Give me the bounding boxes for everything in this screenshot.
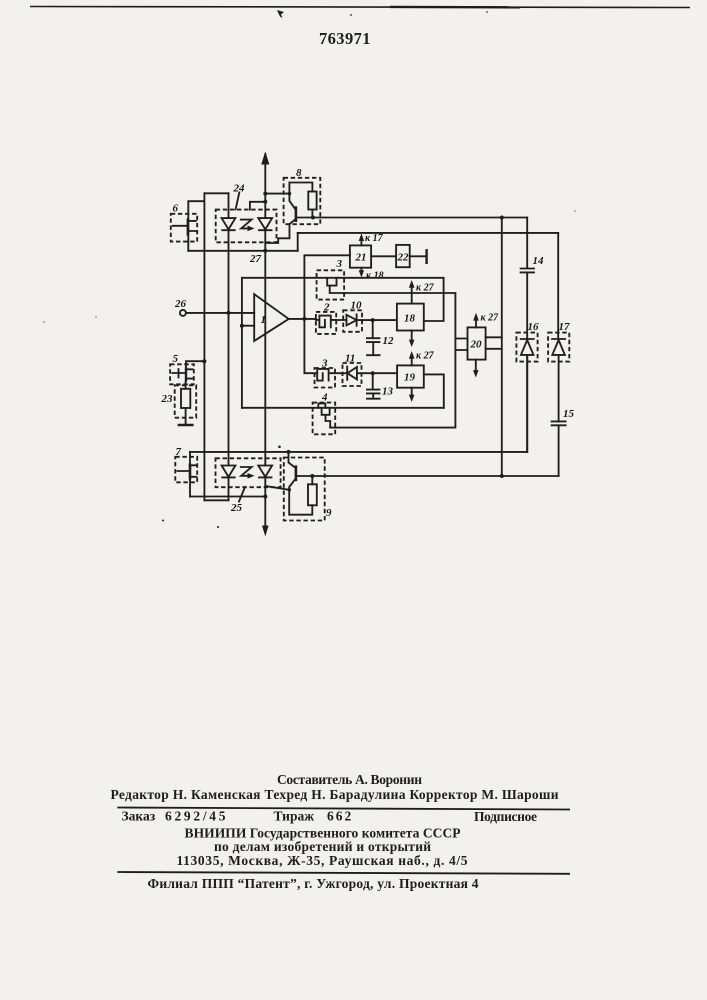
wire: y=293 long line to x=455.4 down to box4 exit <box>330 293 455 428</box>
ground bar under 23 <box>178 424 194 427</box>
svg-text:3: 3 <box>336 258 343 270</box>
svg-text:Тираж: Тираж <box>274 809 315 824</box>
svg-text:2: 2 <box>323 302 330 314</box>
svg-text:к 27: к 27 <box>416 283 435 294</box>
svg-text:16: 16 <box>528 321 540 333</box>
wire: LED chain vertical x=228.5 lower <box>228 477 230 500</box>
wire: long left vertical x=204.4 <box>203 193 205 500</box>
arrow down from box 20 <box>475 360 477 373</box>
svg-text:к 18: к 18 <box>366 271 384 282</box>
transistor V9 collector <box>289 452 296 468</box>
arrow k27 up from box 19 <box>411 355 413 365</box>
diode D17 <box>552 233 565 422</box>
svg-text:18: 18 <box>404 313 416 325</box>
wire: op-amp loop top y=277.8 to corner and into box 18 <box>242 278 444 321</box>
svg-text:13: 13 <box>382 386 394 398</box>
vertical x=501.8 <box>501 218 503 477</box>
wire: output dropper to lower branch <box>304 319 317 373</box>
svg-text:763971: 763971 <box>319 29 371 48</box>
svg-text:к 17: к 17 <box>365 233 384 244</box>
wire: bottom cap between verticals <box>204 499 228 501</box>
wire: top up-arrow stem at node x=265.3 <box>264 154 266 218</box>
wire: node 27 riser to long line <box>297 233 299 251</box>
transistor box 9 dashed <box>284 458 325 521</box>
transistor box 5 dashed <box>170 364 194 384</box>
box 19 <box>397 365 424 387</box>
diode 10 box dashed <box>343 310 362 332</box>
svg-text:6292/45: 6292/45 <box>165 809 228 824</box>
svg-text:10: 10 <box>351 300 363 312</box>
svg-text:26: 26 <box>174 298 187 310</box>
transistor box 6 dashed <box>171 214 197 242</box>
junction dot resistor8 bottom <box>311 216 315 220</box>
arrow down from box 18 <box>411 331 413 343</box>
svg-text:Редактор Н. Каменская Техред: Редактор Н. Каменская Техред Н. Барадули… <box>111 787 559 802</box>
svg-text:25: 25 <box>230 502 243 514</box>
wire box21-box22 <box>371 255 396 257</box>
wire: node-27 chain vertical x=265.3 middle <box>264 230 266 466</box>
wire: dot line y=193.6 to transistor 8 collector <box>265 193 289 195</box>
mosfet box 3 lower dashed <box>315 368 336 388</box>
op-amp U1 triangle <box>254 294 289 341</box>
transistor V9 base bar <box>295 465 298 481</box>
page top edge line <box>30 7 690 8</box>
transistor 6 symbol <box>187 218 190 235</box>
svg-text:3: 3 <box>321 358 328 370</box>
svg-text:по делам изобретений и открыти: по делам изобретений и открытий <box>214 839 431 854</box>
speck mark near top <box>277 10 284 18</box>
mosfet box 4 dashed <box>313 403 336 435</box>
diode D-left of U25 <box>222 466 236 478</box>
transistor V9 emitter loop <box>289 480 312 515</box>
box 18 <box>397 304 424 331</box>
rule 2 <box>117 872 570 874</box>
diode D-right of U25 <box>258 466 272 478</box>
resistor R23 <box>181 389 190 408</box>
svg-text:19: 19 <box>404 372 416 384</box>
input terminal 26 <box>180 310 186 316</box>
box 21 <box>350 245 371 267</box>
svg-text:12: 12 <box>383 335 395 347</box>
wire: top cap between verticals <box>204 192 228 194</box>
resistor R9 top lead <box>311 476 313 484</box>
optocoupler box U24 dashed <box>216 210 277 243</box>
diode 11 box dashed <box>343 363 362 386</box>
arrow down from box 19 <box>411 388 413 398</box>
wire: LED chain vertical x=228.5 middle <box>228 230 230 466</box>
capacitor C14 <box>521 218 534 340</box>
arrow k17 up from box 21 <box>360 237 362 245</box>
svg-text:Филиал ППП “Патент”, г. Ужгоро: Филиал ППП “Патент”, г. Ужгород, ул. Про… <box>148 876 479 891</box>
arrow k27 up from box 18 <box>411 284 413 304</box>
mosfet 2 symbol <box>316 316 336 328</box>
thyristor box 16 dashed <box>516 333 537 362</box>
transistor 5 symbol <box>185 367 187 381</box>
wire: long line y=233 to thyristor 17 <box>298 232 559 234</box>
wire: bottom arrow down <box>264 477 266 527</box>
wire: input line y=312.9 <box>186 312 254 314</box>
wire: LED chain vertical x=228.5 upper <box>228 193 230 218</box>
svg-text:662: 662 <box>327 809 353 824</box>
label 25 pointer <box>239 487 245 502</box>
wire: bottom outer left edge x=190 <box>189 452 191 497</box>
svg-text:к 27: к 27 <box>416 351 435 362</box>
box 20 left stubs <box>455 339 467 351</box>
resistor box 23 dashed <box>175 385 197 417</box>
zener Z mark of U24 <box>241 220 252 229</box>
transistor V8 base bar <box>295 206 298 222</box>
svg-text:Составитель А. Воронин: Составитель А. Воронин <box>277 772 422 787</box>
wire: thyristor16 drop to line A <box>526 355 528 452</box>
wire: top outer corner left edge x=188.3 <box>188 201 204 251</box>
diode to base diagonal <box>265 486 289 490</box>
arrow k18 down from box 21 <box>360 268 362 274</box>
arrowhead up <box>261 152 269 165</box>
svg-text:20: 20 <box>470 339 483 351</box>
box 22 <box>396 245 410 267</box>
box 20 <box>468 327 486 359</box>
thyristor box 17 dashed <box>548 333 569 362</box>
junction dot bottom edge <box>263 495 267 499</box>
mosfet 3u symbol <box>327 278 344 293</box>
wire: long line y=217.5 <box>297 217 527 219</box>
svg-text:15: 15 <box>563 408 575 420</box>
svg-text:23: 23 <box>161 393 174 405</box>
capacitor C13 <box>367 373 380 399</box>
transistor box 7 dashed <box>175 457 197 483</box>
svg-text:17: 17 <box>559 321 571 333</box>
capacitor C15 <box>552 421 566 476</box>
optocoupler box U25 dashed <box>216 458 281 487</box>
label 24 pointer <box>236 193 240 210</box>
wire: line A y=452 <box>190 451 527 453</box>
resistor R8 <box>308 192 316 210</box>
svg-text:1: 1 <box>261 314 267 326</box>
mosfet 3L symbol <box>317 369 334 381</box>
resistor R8 bottom lead <box>311 210 313 218</box>
junction dot <box>263 200 267 204</box>
svg-text:5: 5 <box>173 353 179 365</box>
svg-text:6: 6 <box>173 203 179 215</box>
terminal bar <box>425 249 427 264</box>
svg-text:9: 9 <box>326 507 332 519</box>
diode VD10 <box>336 314 397 325</box>
wire: op-amp loop bottom through box 4 to corner <box>242 407 444 409</box>
resistor R9 <box>308 484 317 505</box>
mosfet box 2 dashed <box>316 312 336 334</box>
diode D16 <box>521 339 534 452</box>
wire: box 19 right loop <box>424 374 444 407</box>
junction dot <box>263 192 267 196</box>
wire: op-amp loop left edge <box>241 278 243 408</box>
svg-text:7: 7 <box>176 446 182 458</box>
box 20 right stubs <box>486 337 502 349</box>
transistor V8 emitter <box>265 220 295 243</box>
svg-text:27: 27 <box>249 253 262 265</box>
rule 1 <box>117 808 570 810</box>
svg-text:к 27: к 27 <box>481 313 500 324</box>
svg-text:11: 11 <box>345 353 355 365</box>
svg-text:14: 14 <box>533 255 545 267</box>
wire: feedback input <box>242 325 254 327</box>
arrow k27 up from box 20 <box>475 317 477 328</box>
mosfet 4 symbol <box>318 403 330 427</box>
svg-text:Заказ: Заказ <box>122 809 156 824</box>
zener Z mark of U25 <box>241 467 252 476</box>
diode D-left of U24 <box>222 218 236 230</box>
diode D-right of U24 <box>258 218 272 230</box>
wire: output riser to box 21 <box>304 255 350 319</box>
wire: bottom edge y=496.5 <box>190 496 265 498</box>
wire box22-terminal <box>410 255 426 257</box>
junction dot at x=501.8 <box>500 216 504 220</box>
junction dot emitter corner <box>287 488 291 492</box>
paper specks <box>278 446 281 449</box>
node 27 junction dot <box>263 249 267 253</box>
wire: node 27 horizontal y=251 <box>188 250 297 252</box>
wire: op-amp output <box>289 318 316 320</box>
transistor V8 collector <box>289 194 295 209</box>
svg-text:21: 21 <box>355 252 367 264</box>
svg-text:113035, Москва, Ж-35, Раушская: 113035, Москва, Ж-35, Раушская наб., д. … <box>177 853 468 868</box>
svg-text:4: 4 <box>321 392 328 404</box>
wire: stub from dot2 to zener top <box>250 202 265 210</box>
svg-text:22: 22 <box>397 252 410 264</box>
transistor 7 symbol <box>189 463 192 479</box>
box 8 dashed <box>284 178 321 224</box>
svg-text:Подписное: Подписное <box>474 809 537 824</box>
diode VD11 reversed <box>334 367 397 380</box>
mosfet box 3 upper dashed <box>317 270 345 299</box>
capacitor C12 <box>367 320 380 355</box>
wire: line B y=476 <box>297 475 559 477</box>
transistor V8 internal top loop to resistor <box>289 183 312 194</box>
wire box5 to main vertical <box>186 361 204 367</box>
